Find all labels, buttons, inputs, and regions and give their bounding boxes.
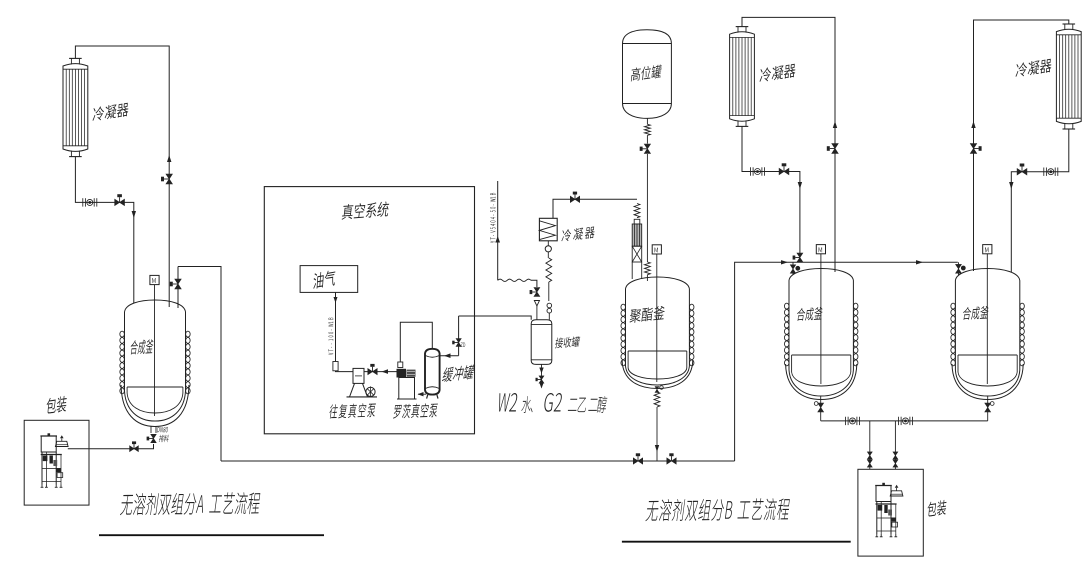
wire: B discharge header xyxy=(821,420,988,422)
jacket scallops right R4 xyxy=(1020,303,1025,366)
label 冷凝器 E1 xyxy=(92,102,129,122)
jacket scallops left R2 xyxy=(621,304,626,366)
jacket scallops left R1A xyxy=(120,331,125,394)
sight glass on B1 condensate xyxy=(750,167,752,175)
valve on B2 condensate xyxy=(1017,169,1027,175)
title B underline xyxy=(622,541,851,543)
label YT-V5404-50-W1B (rotated) xyxy=(490,193,495,243)
condenser E4 冷凝器 (B2, mirrored) xyxy=(1056,24,1081,129)
label 油气 xyxy=(313,269,336,289)
wire: vacuum line from receiver tank into box xyxy=(459,316,532,320)
wire: bypass roots pump to buffer tank top xyxy=(400,322,432,362)
title 无溶剂双组分B工艺流程 xyxy=(645,498,790,521)
valve above R3 inlet xyxy=(797,253,803,262)
arrow right on B feed line (1) xyxy=(781,260,788,264)
valve on discharge run xyxy=(130,446,139,452)
label 合成釜 R1A xyxy=(130,339,154,355)
valve on E2 top pipe xyxy=(570,196,579,202)
label 排料 xyxy=(159,435,170,442)
discharge valve R1A xyxy=(151,434,156,442)
wire: E1 vapor inlet pipe (top) to riser xyxy=(75,46,169,307)
arrow right on B feed line (2) xyxy=(916,260,923,264)
jacket scallops right R3 xyxy=(853,303,858,366)
check funnel on receiver vent leg xyxy=(534,301,539,307)
buffer tank drain arrow xyxy=(418,393,426,395)
elevated tank 高位罐 xyxy=(623,30,672,119)
R2 bottom outlet + spring xyxy=(656,388,658,392)
oil-gas box 油气 xyxy=(300,266,358,293)
label 合成釜 R3 xyxy=(796,307,823,321)
valve on A condensate line xyxy=(115,199,125,205)
label 缓冲罐 xyxy=(442,364,476,382)
valve on B2 riser xyxy=(970,144,976,154)
valve on B1 riser xyxy=(832,144,838,154)
sight glass on A condensate line xyxy=(82,198,84,206)
distillation column on polyester reactor xyxy=(634,204,640,218)
wire: R1A top to transfer header (down to bottom header) xyxy=(178,267,221,462)
reactor R3 合成釜 (B1) vessel xyxy=(786,269,857,400)
label 包装 (A) xyxy=(46,395,67,414)
reciprocating vacuum pump 往复真空泵 xyxy=(347,368,378,397)
title 无溶剂双组分A工艺流程 xyxy=(120,492,261,515)
agitator shaft R3 xyxy=(820,254,822,384)
jacket scallops right R2 xyxy=(689,304,694,366)
receiver tank bottom outlet xyxy=(541,364,543,387)
R4 bottom outlet valve xyxy=(987,397,989,421)
roots vacuum pump 罗茨真空泵 xyxy=(397,362,417,399)
wire: vacuum inlet into buffer tank xyxy=(440,355,459,357)
condenser E3 冷凝器 (B1) xyxy=(730,27,755,127)
agitator motor M of R2 xyxy=(652,245,661,254)
double valve on drop 2 xyxy=(893,452,898,459)
wire: recip pump to roots pump xyxy=(364,371,397,373)
reactor R2 聚酯釜 vessel xyxy=(622,277,693,389)
vent line YT-V5404-50-W1B xyxy=(497,181,499,280)
valve on header (left of R2 drop) xyxy=(633,458,642,464)
wire: E4 condensate to R4 top xyxy=(1011,129,1069,272)
agitator shaft R1A xyxy=(154,285,156,416)
label 冷凝器 E3 xyxy=(759,63,796,83)
label 往复真空泵 xyxy=(329,403,377,419)
label 冷凝器 E2 xyxy=(561,226,595,242)
flow indicator on oil-gas pipe xyxy=(333,362,338,371)
arrow up on A vapor riser xyxy=(167,155,171,162)
reactor R1A 合成釜 vessel xyxy=(121,300,189,427)
vacuum system enclosure 真空系统 xyxy=(264,187,474,434)
agitator motor M of R3 xyxy=(816,245,825,254)
wire: E1 condensate pipe to reactor R1A xyxy=(75,157,133,303)
wire: oil-gas down-pipe to recip pump xyxy=(335,292,337,361)
arrow up on B2 riser xyxy=(971,121,975,128)
condenser E1 冷凝器 (A line) xyxy=(63,58,88,156)
wire: R1A discharge to packing station xyxy=(68,444,154,449)
valve on B1 condensate xyxy=(779,168,789,174)
label VT--100-W1B (rotated) xyxy=(328,318,333,355)
arrow down on B2 condensate drop xyxy=(1009,182,1013,189)
wire: drop 2 to packing box B xyxy=(894,421,896,469)
sight glass on B header (right) xyxy=(898,417,900,425)
label 聚酯釜 xyxy=(629,305,665,323)
valve on R3 top nozzle (below feed line) xyxy=(792,262,794,275)
condenser E2 冷凝器 (small, middle) xyxy=(539,218,557,241)
sight glass on B2 condensate xyxy=(1043,168,1045,176)
packaging machine A xyxy=(40,433,68,487)
wire: drop 1 to packing box B xyxy=(869,421,871,469)
label 真空系统 xyxy=(342,201,390,220)
packaging machine B xyxy=(875,483,903,537)
wire: bottom transfer header A to B xyxy=(221,460,735,462)
nozzle/vacuum valve on R1A top xyxy=(177,267,179,309)
spring pipe E2 to receiver xyxy=(546,258,552,282)
packing station box B 包装 xyxy=(858,469,923,556)
jacket scallops left R3 xyxy=(784,303,789,366)
flexible hose (wavy) to receiver tank leg xyxy=(498,279,531,281)
R3 bottom outlet valve xyxy=(820,397,822,421)
valve on elevated tank feed xyxy=(644,144,650,153)
label 接收罐 xyxy=(555,336,581,348)
arrow up on vent line xyxy=(495,236,500,243)
valve between pumps xyxy=(368,369,377,375)
arrow left between pumps xyxy=(382,369,389,374)
sight glass on B header (left) xyxy=(845,417,847,425)
R1A bottom outlet nozzle xyxy=(150,426,152,433)
label 高位罐 xyxy=(630,64,662,81)
label DN80 xyxy=(157,427,168,432)
packing station box A 包装 xyxy=(24,420,89,505)
jacket scallops right R1A xyxy=(186,331,191,394)
agitator shaft R4 xyxy=(986,254,988,384)
arrow down on oil-gas pipe xyxy=(334,297,338,303)
arrow up on B1 riser xyxy=(833,121,837,128)
receiver tank 接收罐 xyxy=(531,320,552,365)
wire: elevated tank feed to polyester reactor xyxy=(646,118,648,124)
label 包装 (B) xyxy=(927,499,947,517)
label W2水、G2二乙二醇 xyxy=(497,393,608,413)
label 合成釜 R4 xyxy=(962,306,989,320)
label 罗茨真空泵 xyxy=(393,403,438,419)
valve on A vapor riser xyxy=(166,174,172,184)
jacket scallops left R4 xyxy=(951,303,956,366)
double flange into receiver tank xyxy=(547,303,552,308)
wire: E2 top pipe to column xyxy=(553,199,637,218)
wire: header riser to B reactors top feed line xyxy=(735,262,958,461)
agitator motor M of R1A xyxy=(150,275,159,284)
valve on receiver vent leg xyxy=(534,288,540,297)
reactor R4 合成釜 (B2) vessel xyxy=(952,269,1023,400)
wire: E3 condensate to R3 top xyxy=(742,126,800,254)
agitator shaft R2 xyxy=(656,254,658,382)
wire: E3 vapor pipe to R3 riser xyxy=(742,17,835,272)
double valve on drop 1 xyxy=(867,452,872,459)
valve ZD on vacuum inlet xyxy=(456,339,461,347)
label 冷凝器 E4 xyxy=(1015,58,1052,78)
title A underline xyxy=(99,534,324,536)
wire: E4 vapor pipe to R4 riser xyxy=(974,20,1069,271)
buffer tank 缓冲罐 xyxy=(425,349,440,395)
flange circle under E2 xyxy=(547,241,549,246)
arrow down on A condensate drop xyxy=(132,211,136,218)
arrow down on B1 condensate drop xyxy=(798,182,802,189)
valve on header (right of R2 drop) xyxy=(667,458,676,464)
agitator motor M of R4 xyxy=(983,245,992,254)
valve on R4 top feed nozzle xyxy=(958,262,960,275)
